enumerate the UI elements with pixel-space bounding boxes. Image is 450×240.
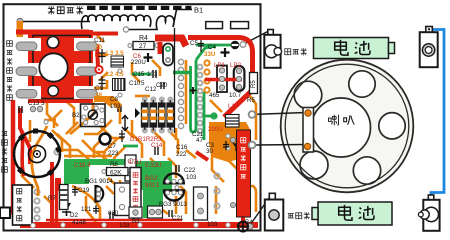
antenna label 磁性天线 — [48, 6, 83, 15]
footprint above B3 — [125, 155, 136, 181]
svg-text:LP2: LP2 — [230, 62, 242, 69]
wire — [175, 196, 178, 214]
white footprint mid-right — [194, 187, 208, 220]
D2 diode symbol — [62, 203, 71, 211]
wire — [250, 96, 256, 140]
R6 resistor — [107, 168, 129, 177]
svg-text:18: 18 — [95, 92, 102, 99]
svg-text:LP1: LP1 — [214, 62, 226, 69]
orange pad columns — [178, 59, 183, 128]
C13 pads — [30, 106, 36, 112]
red trace top band across — [93, 32, 118, 36]
wire — [160, 208, 168, 214]
speaker outer circle — [281, 60, 414, 193]
svg-text:B1: B1 — [194, 6, 203, 15]
orange n-shape bottom right — [248, 186, 256, 212]
wire — [60, 96, 74, 126]
svg-text:103: 103 — [186, 174, 197, 181]
B2 oscillator coil — [70, 99, 120, 134]
D1 R1 R2 R3 vertical band components — [142, 100, 174, 131]
green block mid-left — [64, 159, 135, 184]
svg-text:0.33U: 0.33U — [145, 162, 162, 169]
green near pot — [66, 162, 69, 196]
jumper footprints top right — [206, 22, 223, 29]
wire PCB to speaker (upper) — [252, 113, 306, 115]
wire — [152, 60, 160, 76]
wire — [22, 150, 34, 188]
svg-text:L2 4.5: L2 4.5 — [106, 71, 124, 78]
footprints bottom — [129, 206, 163, 218]
red trace cap right — [86, 44, 98, 67]
svg-text:62K: 62K — [110, 170, 122, 177]
wire — [52, 130, 62, 152]
svg-text:C10: C10 — [129, 80, 141, 87]
black oval footprint — [163, 44, 173, 66]
red trace left vertical — [13, 100, 48, 225]
wire — [54, 110, 62, 128]
vertical text 双联可变电容器 — [7, 41, 13, 101]
svg-text:223: 223 — [108, 150, 119, 157]
wire — [44, 196, 52, 204]
wire — [152, 196, 158, 214]
green vertical pair — [191, 60, 197, 132]
svg-text:C15: C15 — [133, 71, 145, 78]
speaker center circle — [312, 98, 371, 157]
wire — [135, 95, 150, 98]
wire — [96, 152, 110, 162]
speaker wire pads on board — [249, 111, 256, 118]
ticks — [17, 129, 62, 177]
L3 inductor — [111, 56, 124, 67]
svg-text:103: 103 — [147, 71, 158, 78]
antenna lead wire — [20, 21, 90, 23]
svg-text:220U: 220U — [208, 126, 223, 133]
speaker terminal bracket — [303, 108, 314, 153]
R7 resistor vertical — [60, 185, 69, 210]
negative plate 负极片 — [243, 30, 307, 68]
trace under pot (orange) — [32, 126, 47, 196]
wire — [132, 62, 140, 82]
green trace c6 stub — [132, 73, 151, 76]
coil pad — [123, 27, 128, 32]
wire — [106, 186, 114, 194]
wire — [152, 130, 164, 156]
red component near pot — [55, 178, 61, 191]
svg-text:R5: R5 — [251, 80, 257, 88]
wire — [58, 60, 70, 88]
wire — [132, 120, 142, 158]
wire arc around BG1 — [72, 186, 100, 220]
svg-text:222: 222 — [176, 151, 187, 158]
svg-text:47: 47 — [196, 137, 203, 144]
red node — [95, 66, 102, 73]
wire — [114, 146, 126, 166]
L1 inductor — [226, 115, 240, 128]
orange lead-in — [17, 21, 24, 37]
green short2 — [123, 145, 138, 148]
svg-text:4.7U: 4.7U — [128, 159, 141, 166]
svg-text:121: 121 — [81, 206, 92, 213]
wire — [212, 150, 224, 182]
gray pad columns — [34, 65, 219, 221]
svg-text:R6: R6 — [110, 161, 118, 168]
wire — [96, 34, 104, 42]
red trace LP cross2 — [205, 78, 242, 82]
svg-text:103: 103 — [110, 103, 121, 110]
svg-text:C4: C4 — [208, 44, 216, 51]
wire — [148, 223, 170, 226]
svg-text:C7: C7 — [108, 143, 116, 150]
speaker rim inner line — [285, 64, 409, 188]
black ring test point — [100, 134, 111, 145]
green trace horizontal — [173, 71, 192, 75]
wire — [60, 150, 92, 162]
red trace mid — [196, 152, 208, 160]
switch box bottom-left — [0, 185, 32, 225]
Y symbol — [233, 142, 240, 151]
svg-text:R7: R7 — [48, 195, 56, 202]
red trace r7 left — [55, 182, 58, 222]
wire — [215, 186, 218, 214]
green vertical right — [203, 92, 206, 140]
notches — [24, 38, 93, 99]
battery bottom 电池 — [312, 202, 392, 225]
wire — [104, 138, 118, 164]
green short — [205, 115, 217, 118]
wire — [94, 80, 107, 88]
green block mid — [133, 161, 172, 218]
speaker mounting holes — [349, 71, 375, 97]
wire — [124, 128, 134, 138]
svg-text:20: 20 — [95, 44, 102, 51]
wire — [66, 96, 90, 102]
wire — [47, 100, 58, 126]
pads on ground bar — [31, 223, 231, 228]
svg-text:C9: C9 — [95, 85, 103, 92]
wire — [108, 178, 122, 204]
wire — [100, 126, 124, 138]
wire — [84, 120, 112, 134]
theta pad — [231, 41, 240, 50]
wire — [119, 180, 122, 200]
svg-text:4148: 4148 — [72, 219, 86, 226]
wire — [168, 158, 176, 178]
svg-text:C19: C19 — [78, 187, 90, 194]
svg-text:C5: C5 — [190, 40, 198, 47]
red trace r4 blob — [155, 38, 186, 46]
svg-text:020: 020 — [108, 210, 119, 217]
LP1 LP2 — [217, 66, 227, 93]
B3 input transformer — [115, 168, 141, 216]
wire — [186, 150, 196, 158]
wire — [128, 190, 136, 212]
blue wire — [431, 30, 444, 197]
svg-text:R4: R4 — [139, 35, 148, 42]
battery top 电池 — [314, 38, 395, 59]
vertical text 带开关电位器 — [2, 131, 8, 172]
R5 vertical — [250, 73, 258, 94]
red trace bottom bar — [20, 222, 258, 228]
wire — [170, 132, 178, 154]
red trace left pair — [20, 108, 30, 164]
R4 resistor — [133, 35, 154, 50]
wire — [60, 66, 68, 74]
orange blob right-mid — [209, 122, 251, 162]
svg-text:C13 3: C13 3 — [28, 100, 45, 107]
wire — [185, 60, 188, 124]
svg-text:103: 103 — [207, 221, 218, 228]
svg-text:C22: C22 — [184, 167, 196, 174]
scattered pads — [44, 44, 230, 213]
svg-text:B3: B3 — [132, 218, 140, 225]
wire — [74, 162, 82, 180]
svg-text:L1: L1 — [228, 103, 235, 110]
svg-text:C16: C16 — [176, 144, 188, 151]
svg-text:C18 4: C18 4 — [74, 162, 91, 169]
svg-text:R5: R5 — [247, 97, 255, 104]
wire — [96, 95, 110, 105]
svg-text:103: 103 — [119, 222, 130, 229]
board outline — [4, 4, 261, 230]
svg-text:27: 27 — [139, 43, 147, 50]
wire — [57, 134, 70, 158]
speaker label 喇叭 — [328, 115, 354, 126]
updown arrow — [122, 116, 128, 131]
svg-text:33U: 33U — [204, 51, 216, 58]
wire — [175, 128, 178, 140]
wire — [29, 120, 32, 142]
BG1 transistor — [96, 186, 104, 202]
green trace top right — [196, 44, 232, 47]
plus symbols — [144, 48, 230, 94]
wire — [86, 196, 96, 222]
svg-text:D2: D2 — [70, 212, 78, 219]
circles — [47, 37, 59, 49]
variable capacitor red block — [16, 30, 98, 103]
wire — [110, 100, 120, 124]
svg-text:BG1 9014: BG1 9014 — [85, 178, 113, 185]
cap symbol pairs — [19, 70, 179, 219]
wire — [64, 155, 112, 158]
B4 output transformer (red) — [230, 130, 250, 217]
potentiometer — [14, 126, 62, 196]
battery clip bottom-right (spring) — [418, 195, 439, 231]
green pad — [211, 113, 216, 118]
wire — [82, 140, 106, 152]
coil winding B1 — [81, 15, 150, 29]
battery clip top-right — [420, 27, 438, 68]
ferrite rod B1 dashes — [87, 6, 191, 10]
svg-text:465: 465 — [209, 92, 220, 99]
red trace pot right — [50, 162, 54, 222]
wire — [210, 100, 222, 112]
svg-text:BG3 9013: BG3 9013 — [159, 201, 187, 208]
wire — [100, 72, 108, 80]
svg-text:C21: C21 — [172, 215, 184, 222]
svg-text:9013: 9013 — [145, 182, 159, 189]
wire — [228, 160, 238, 170]
positive plate 正极片 — [249, 193, 310, 230]
svg-text:C20: C20 — [156, 82, 168, 89]
trace under pot (red) — [22, 132, 24, 176]
long vertical wire — [174, 28, 176, 133]
BG3 transistor — [164, 191, 184, 201]
green trace main — [196, 46, 216, 60]
L2 inductor — [113, 79, 126, 91]
svg-text:BG2: BG2 — [145, 175, 158, 182]
wire PCB to speaker (lower) — [252, 144, 306, 147]
wire — [66, 122, 78, 134]
ground crosshair — [238, 222, 248, 232]
wire — [180, 186, 186, 214]
red trace top bar — [16, 30, 89, 35]
red trace bottom thin bar — [46, 219, 182, 221]
svg-text:B4: B4 — [245, 219, 253, 226]
wire — [46, 34, 58, 76]
svg-text:C11: C11 — [94, 37, 105, 44]
red trace out trans — [241, 216, 245, 224]
svg-text:C8: C8 — [110, 96, 118, 103]
wire — [44, 119, 56, 122]
svg-text:10.7: 10.7 — [229, 92, 242, 99]
svg-text:B2: B2 — [72, 112, 80, 119]
svg-text:L3 3.5: L3 3.5 — [106, 50, 124, 57]
trimmer symbols — [72, 40, 229, 214]
wire — [65, 166, 68, 196]
svg-text:220U: 220U — [131, 59, 146, 66]
wire — [95, 54, 108, 57]
wire — [150, 158, 158, 166]
svg-text:C14: C14 — [151, 142, 163, 149]
wire — [94, 133, 108, 158]
svg-text:30: 30 — [206, 148, 213, 155]
BG2 transistor — [164, 173, 184, 183]
pads — [16, 42, 98, 98]
D1 diode symbol — [135, 108, 140, 118]
